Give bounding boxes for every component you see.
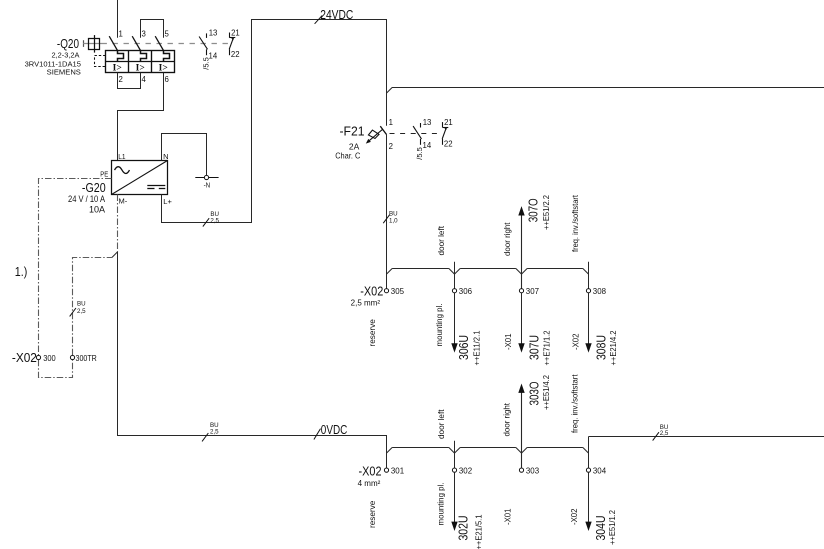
svg-text:-X01: -X01 [504,508,513,525]
svg-text:L+: L+ [163,197,172,206]
svg-text:6: 6 [165,75,169,84]
svg-text:13: 13 [423,118,432,127]
svg-text:303: 303 [526,465,539,475]
svg-text:++E51/4.2: ++E51/4.2 [542,374,551,410]
svg-text:1.): 1.) [15,264,27,279]
svg-text:300TR: 300TR [76,353,97,363]
svg-text:2,5: 2,5 [77,308,86,315]
svg-text:10A: 10A [89,204,105,214]
svg-text:mounting pl.: mounting pl. [437,483,446,526]
svg-text:2,5: 2,5 [210,429,219,436]
svg-text:SIEMENS: SIEMENS [47,68,81,77]
svg-text:304: 304 [593,465,606,475]
svg-text:Char. C: Char. C [335,151,360,161]
svg-text:1,0: 1,0 [389,217,398,224]
svg-text:2: 2 [389,142,393,151]
svg-text:L1: L1 [118,152,125,161]
svg-text:mounting pl.: mounting pl. [435,304,444,347]
svg-text:2,5 mm²: 2,5 mm² [351,298,381,307]
svg-text:300: 300 [43,353,56,363]
svg-text:-F21: -F21 [340,123,365,138]
svg-text:PE: PE [100,169,108,178]
svg-text:I>: I> [136,63,145,73]
svg-text:303O: 303O [527,382,542,406]
svg-text:5: 5 [165,29,170,38]
svg-text:reserve: reserve [368,319,377,347]
svg-text:BU: BU [77,301,86,308]
svg-text:13: 13 [209,28,218,37]
svg-text:-X02: -X02 [360,283,383,298]
svg-text:door left: door left [437,225,446,255]
svg-text:2,5: 2,5 [210,217,219,224]
svg-text:0VDC: 0VDC [321,422,348,437]
svg-text:-X01: -X01 [504,333,513,350]
svg-text:22: 22 [231,50,240,59]
svg-text:305: 305 [391,286,404,296]
svg-text:door right: door right [503,222,512,256]
svg-text:-X02: -X02 [12,350,37,365]
svg-text:306: 306 [459,286,472,296]
svg-text:-G20: -G20 [82,180,106,195]
svg-text:++E51/2.2: ++E51/2.2 [542,194,551,230]
svg-text:-X02: -X02 [570,508,579,525]
svg-text:++E21/5.1: ++E21/5.1 [475,514,484,549]
svg-text:++E71/1.2: ++E71/1.2 [542,330,551,366]
svg-text:307U: 307U [527,335,542,360]
svg-text:21: 21 [231,29,240,38]
svg-text:I>: I> [159,63,168,73]
svg-text:++E51/1.2: ++E51/1.2 [608,509,617,545]
svg-text:308U: 308U [594,335,609,360]
svg-text:302U: 302U [456,516,471,541]
svg-text:N: N [163,152,168,161]
svg-text:1: 1 [389,118,393,127]
svg-text:304U: 304U [593,516,608,541]
svg-text:++E11/2.1: ++E11/2.1 [472,330,481,366]
svg-text:24 V / 10 A: 24 V / 10 A [68,194,105,204]
svg-text:21: 21 [444,118,453,127]
svg-text:door right: door right [503,402,512,436]
svg-text:/5.5: /5.5 [415,147,424,160]
svg-text:302: 302 [459,465,472,475]
svg-text:/5.5: /5.5 [201,57,210,70]
svg-text:22: 22 [444,140,453,149]
svg-text:307: 307 [526,286,539,296]
svg-text:freq. inv./softstart: freq. inv./softstart [571,194,580,252]
svg-text:301: 301 [391,465,404,475]
svg-text:308: 308 [593,286,606,296]
svg-text:I>: I> [113,63,122,73]
svg-text:BU: BU [389,210,398,217]
svg-text:M-: M- [119,197,128,206]
svg-text:2,2-3,2A: 2,2-3,2A [52,51,80,60]
svg-text:2: 2 [119,75,123,84]
svg-text:307O: 307O [525,198,540,222]
svg-text:1: 1 [119,29,123,38]
svg-text:reserve: reserve [368,500,377,528]
svg-text:-X02: -X02 [572,333,581,350]
svg-text:++E21/4.2: ++E21/4.2 [609,330,618,366]
svg-text:door left: door left [437,409,446,439]
svg-text:-N: -N [204,181,211,190]
svg-text:2,5: 2,5 [660,430,669,437]
svg-text:-X02: -X02 [359,464,382,479]
svg-text:4 mm²: 4 mm² [358,479,381,488]
svg-text:-Q20: -Q20 [57,36,79,51]
svg-text:freq. inv./softstart: freq. inv./softstart [570,374,579,433]
svg-text:306U: 306U [456,335,471,360]
svg-text:24VDC: 24VDC [320,7,353,22]
svg-text:3: 3 [142,29,146,38]
svg-text:4: 4 [142,75,147,84]
